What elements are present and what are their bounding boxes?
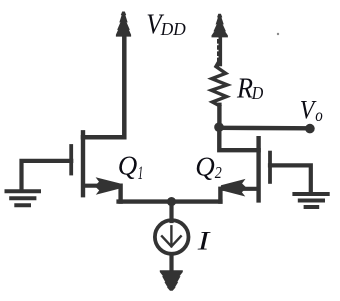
svg-text:Q: Q <box>195 152 215 182</box>
svg-text:DD: DD <box>160 19 186 39</box>
svg-text:Q: Q <box>118 151 138 181</box>
ground (right) <box>294 194 327 207</box>
wire: Q1 source bend down <box>118 186 122 202</box>
wire: current source to negative supply <box>169 255 173 273</box>
terminal Vo (dot) <box>305 124 315 134</box>
wire: Q2 source lead <box>223 187 257 191</box>
label Vo <box>300 94 323 124</box>
power VDD arrow (right, above RD) <box>212 14 228 38</box>
wire: VDD to resistor RD <box>219 31 223 65</box>
node: RD / drain / output junction <box>214 122 224 132</box>
svg-text:D: D <box>251 83 264 103</box>
label RD <box>236 73 264 104</box>
node: common source junction <box>167 197 176 206</box>
wire: Q1 gate to ground <box>22 161 72 191</box>
label Q1 <box>118 151 144 185</box>
current source I (circle) <box>155 220 189 254</box>
transistor Q1 channel bar <box>81 132 85 195</box>
transistor Q2 channel bar <box>256 138 260 200</box>
svg-text:R: R <box>236 73 253 104</box>
wire: VDD supply line (left branch, drain of Q1) <box>83 30 124 137</box>
Q2 source arrow (points left) <box>220 179 246 197</box>
wire: node to current source <box>169 202 173 221</box>
power VDD arrow (left) <box>116 12 131 37</box>
ground (left) <box>7 191 40 205</box>
wire: Q2 source bend down <box>218 189 222 202</box>
transistor Q2 gate bar <box>268 153 272 182</box>
svg-text:2: 2 <box>215 163 222 182</box>
Q1 source arrow (points right) <box>95 177 121 195</box>
speck artifact <box>277 33 279 35</box>
label I <box>196 226 211 255</box>
svg-text:1: 1 <box>138 163 144 184</box>
current source internal arrow <box>162 226 181 246</box>
resistor RD (zigzag) <box>211 60 227 106</box>
transistor Q1 gate bar <box>69 146 73 174</box>
wire: common source rail <box>119 199 221 203</box>
label Q2 <box>195 152 222 182</box>
wire: Q2 gate to ground <box>270 165 311 193</box>
negative supply arrow (down) <box>160 270 183 291</box>
wire: resistor to drain node <box>217 105 221 127</box>
wire: node down to Q2 drain <box>219 127 258 150</box>
label VDD <box>146 8 186 40</box>
wire: Q1 source lead <box>85 184 118 188</box>
svg-text:I: I <box>196 226 211 255</box>
wire: output line to Vo <box>219 126 310 131</box>
svg-text:o: o <box>315 105 323 125</box>
